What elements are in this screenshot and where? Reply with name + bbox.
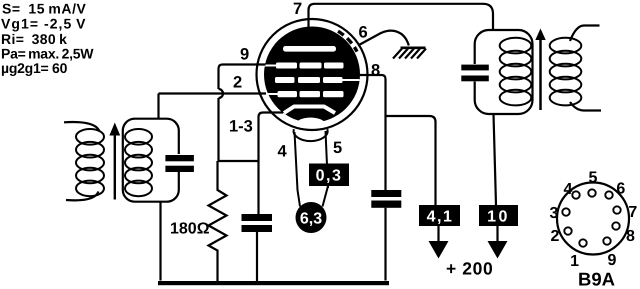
socket pin 6: [605, 191, 612, 198]
svg-text:8: 8: [371, 62, 380, 80]
arrow anode supply: [488, 241, 508, 259]
wire pin 5 to heater circle: [323, 186, 329, 207]
svg-text:10: 10: [487, 209, 510, 226]
socket pin 7: [613, 206, 620, 213]
right tank loop: [475, 30, 533, 114]
heater current label 0,3: [309, 131, 349, 188]
screen current label 4,1: [419, 205, 460, 226]
socket pin 8: [612, 222, 619, 229]
socket pin 9: [603, 237, 610, 244]
svg-text:2: 2: [233, 74, 242, 92]
svg-text:0,3: 0,3: [316, 168, 343, 185]
wire pin 6 to ground: [358, 31, 409, 46]
socket pin 4: [572, 191, 579, 198]
cathode: [284, 107, 335, 114]
svg-text:4,1: 4,1: [427, 209, 454, 226]
left transformer secondary coil: [125, 129, 152, 196]
wire tank top stub: [157, 94, 159, 120]
socket pin 3: [562, 208, 569, 215]
grid g2 leader to pin 8: [341, 79, 360, 81]
wire secondary top lead: [570, 26, 600, 42]
svg-text:Vg1= -2,5 V: Vg1= -2,5 V: [1, 16, 87, 32]
svg-text:6,3: 6,3: [300, 211, 322, 228]
arrow screen supply: [429, 241, 449, 259]
wire top rail to right tank: [315, 4, 494, 30]
wire below 10 box: [496, 226, 498, 242]
svg-text:µg2g1= 60: µg2g1= 60: [1, 60, 68, 76]
svg-text:8: 8: [626, 228, 635, 245]
grid g2 dashed row: [275, 77, 343, 83]
B9A socket outline: [557, 183, 629, 255]
tube parameter text block: [1, 1, 94, 77]
capacitor C2 cathode bypass plates: [242, 214, 273, 232]
heater white bite: [294, 118, 328, 138]
wire right tank bottom stub: [494, 114, 497, 205]
ground bar: [401, 46, 426, 49]
wire left tank bottom stub: [159, 202, 161, 281]
wire screen feed branch: [386, 116, 436, 205]
wire pin 2 to left tank: [159, 92, 267, 94]
wire pin7 to anode top: [309, 4, 315, 30]
svg-text:4: 4: [564, 181, 573, 198]
wire C2 bottom: [256, 232, 258, 281]
anode current label 10: [479, 205, 518, 226]
grid g3 dashed row: [276, 63, 344, 69]
svg-text:5: 5: [589, 170, 598, 187]
svg-text:7: 7: [293, 0, 302, 18]
wire primary top lead: [64, 122, 100, 131]
right transformer secondary coil: [550, 38, 582, 106]
socket pin 1: [579, 239, 586, 246]
wire pins 1-3 lead down: [259, 113, 284, 215]
wire below 4,1 box: [437, 226, 439, 242]
grid g1 dashed row: [278, 91, 344, 97]
socket pin 2: [564, 227, 571, 234]
internal shield dashed arc (pin 6): [338, 31, 357, 51]
tube internal black disc: [264, 27, 360, 123]
right transformer primary coil: [500, 38, 532, 106]
svg-text:6: 6: [359, 24, 368, 42]
capacitor C1 tank plates: [165, 155, 194, 172]
wire pin 4 down: [295, 132, 301, 207]
wire cathode junction horizontal: [218, 160, 259, 162]
capacitor C4 tank plates: [461, 65, 489, 82]
wire pin 9 lead: [219, 65, 266, 90]
wire g3 down to cathode junction: [217, 98, 219, 161]
svg-text:S= 15 mA/V: S= 15 mA/V: [2, 1, 87, 17]
svg-text:7: 7: [628, 204, 637, 221]
wire primary bottom lead: [66, 192, 99, 201]
heater voltage label 6,3: [296, 202, 327, 233]
svg-text:1-3: 1-3: [229, 118, 253, 136]
anode plate: [283, 46, 336, 52]
svg-text:2: 2: [551, 228, 560, 245]
socket labels: [550, 170, 638, 271]
svg-text:4: 4: [278, 143, 288, 161]
svg-text:180Ω: 180Ω: [170, 221, 210, 238]
wire pin 8 screen lead: [360, 75, 386, 190]
right transformer core arrow: [539, 34, 542, 110]
left tank loop gap erase: [176, 154, 182, 172]
svg-text:6: 6: [616, 181, 625, 198]
resistor R1 180 ohm: [209, 161, 227, 281]
wire hop over grid wire: [219, 89, 224, 98]
svg-text:B9A: B9A: [578, 269, 615, 289]
ground bus rail: [158, 281, 389, 285]
left transformer primary coil: [76, 129, 104, 196]
heater bottom outline arc: [294, 129, 328, 141]
pentode V1 envelope: [257, 19, 368, 130]
svg-text:5: 5: [333, 139, 342, 157]
socket pin 5: [588, 189, 595, 196]
svg-text:9: 9: [608, 252, 617, 269]
capacitor C3 screen bypass plates: [371, 190, 401, 208]
wire secondary bottom lead: [570, 102, 601, 111]
wire C3 bottom to rail: [384, 208, 386, 281]
svg-text:9: 9: [240, 46, 249, 64]
right tank loop gap erase: [472, 64, 478, 82]
svg-text:+ 200: + 200: [446, 259, 493, 279]
svg-text:1: 1: [570, 253, 579, 270]
grid g3 leader to pin 9: [264, 65, 278, 67]
ground hatches: [393, 49, 426, 59]
left tank loop: [123, 119, 179, 202]
grid g1 leader to pin 2: [265, 93, 279, 95]
left transformer core arrow: [114, 128, 116, 200]
svg-text:3: 3: [550, 205, 559, 222]
